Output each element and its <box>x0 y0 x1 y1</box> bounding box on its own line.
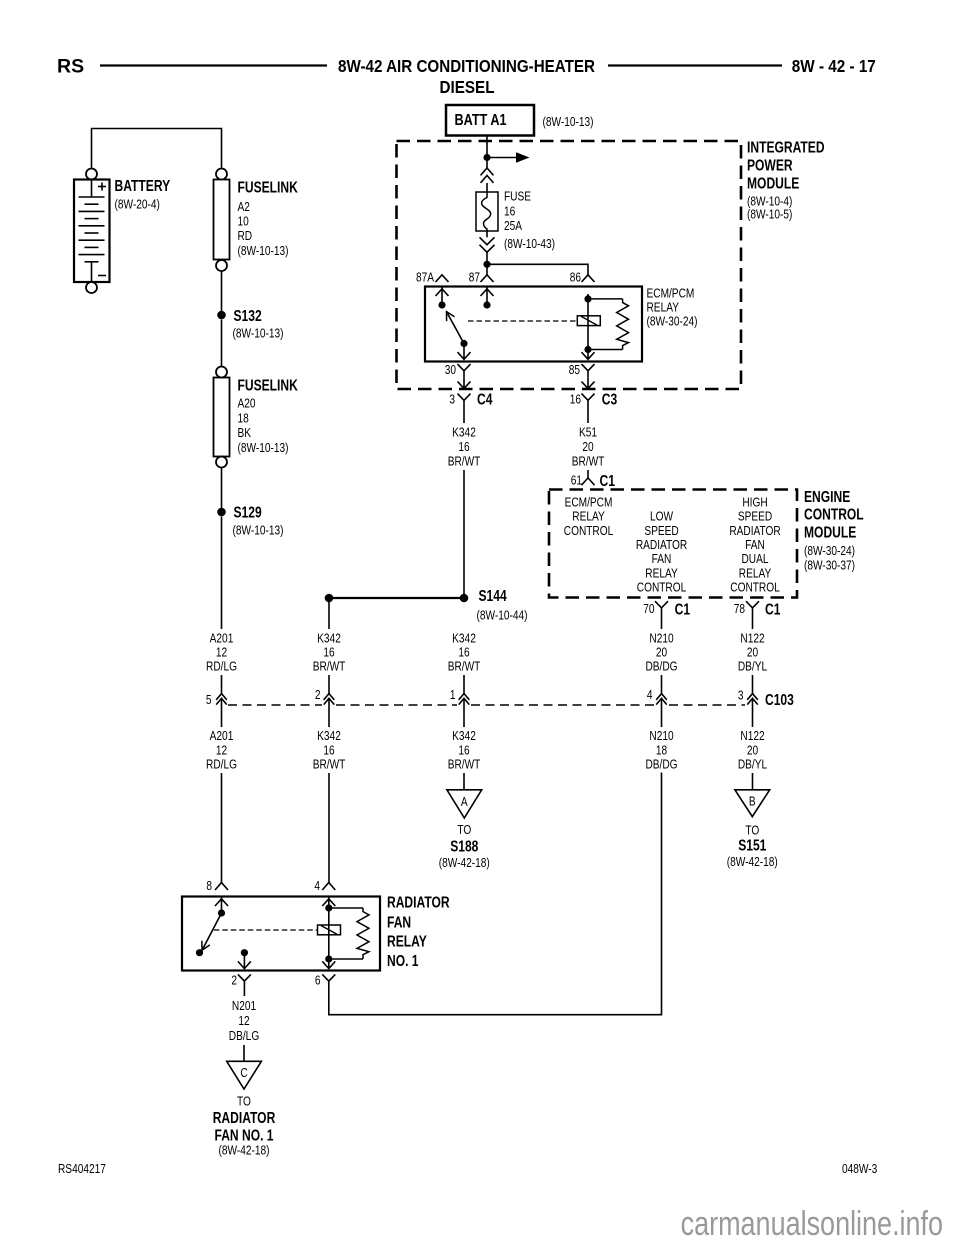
svg-text:MODULE: MODULE <box>804 523 856 541</box>
label FUSE 16 25A <box>504 190 531 204</box>
wire N201 from relay pin 2 <box>243 988 245 996</box>
svg-text:INTEGRATED: INTEGRATED <box>747 138 825 156</box>
svg-text:SPEED: SPEED <box>644 524 678 538</box>
svg-text:SPEED: SPEED <box>738 510 772 524</box>
relay pin 4 connector <box>314 879 320 893</box>
svg-text:RADIATOR: RADIATOR <box>729 524 780 538</box>
fuselink A20 body <box>214 378 230 457</box>
connector C1 pin 70 <box>643 602 655 616</box>
svg-text:S144: S144 <box>479 587 507 605</box>
svg-text:16: 16 <box>323 743 334 757</box>
svg-text:CONTROL: CONTROL <box>637 580 687 594</box>
svg-text:S188: S188 <box>450 837 478 855</box>
svg-text:87: 87 <box>469 270 480 284</box>
svg-text:16: 16 <box>458 440 469 454</box>
wire label N210 20 DB/DG upper <box>649 631 674 645</box>
terminal box BATT A1 <box>446 105 534 136</box>
svg-text:A: A <box>461 795 468 809</box>
svg-text:BR/WT: BR/WT <box>448 454 481 468</box>
wire K51 to ECM pin 61 <box>587 470 589 478</box>
svg-text:25A: 25A <box>504 219 522 233</box>
connector C103 pin 5 <box>221 675 223 694</box>
off-page connector A <box>447 790 482 818</box>
label FUSELINK A2 10 RD <box>238 178 298 196</box>
relay coil <box>577 316 600 326</box>
ECM function ECM/PCM RELAY CONTROL <box>565 495 613 509</box>
svg-text:(8W-10-13): (8W-10-13) <box>233 327 284 341</box>
svg-text:N122: N122 <box>740 631 764 645</box>
svg-text:CONTROL: CONTROL <box>564 524 614 538</box>
relay2 coil feed pin 4 <box>328 897 330 960</box>
svg-text:6: 6 <box>315 974 321 988</box>
connector C103 pin 3 <box>752 675 754 694</box>
wire S129 down (circuit A201) <box>221 517 223 630</box>
relay2 coil <box>318 925 341 935</box>
svg-text:2: 2 <box>231 974 237 988</box>
svg-text:20: 20 <box>656 645 668 659</box>
svg-text:K342: K342 <box>452 425 476 439</box>
connector C1 pin 78 <box>734 602 745 616</box>
engine control module dashed box <box>549 490 797 598</box>
svg-text:DIESEL: DIESEL <box>440 77 495 97</box>
svg-text:5: 5 <box>206 693 212 707</box>
svg-text:C1: C1 <box>675 600 691 618</box>
svg-text:12: 12 <box>216 645 227 659</box>
wire K342 from C4 <box>463 407 465 423</box>
svg-text:TO: TO <box>457 823 471 837</box>
pin 86 <box>570 270 581 284</box>
svg-text:16: 16 <box>458 743 469 757</box>
wire N122 to triangle B <box>752 773 754 790</box>
relay pin 30 leg <box>463 344 465 360</box>
label FUSELINK A20 18 BK <box>238 376 298 394</box>
wire label N201 12 DB/LG <box>232 999 256 1013</box>
svg-text:ECM/PCM: ECM/PCM <box>565 495 613 509</box>
svg-text:(8W-10-13): (8W-10-13) <box>238 244 289 258</box>
svg-text:C3: C3 <box>602 390 618 408</box>
wire branch to pin 86 <box>487 264 588 275</box>
svg-text:(8W-30-37): (8W-30-37) <box>804 558 855 572</box>
svg-text:8: 8 <box>206 879 212 893</box>
wire label K342 16 BR/WT upper <box>452 425 476 439</box>
svg-text:(8W-10-13): (8W-10-13) <box>238 441 289 455</box>
svg-text:85: 85 <box>569 363 580 377</box>
wire pin30 to IPM edge <box>463 378 465 389</box>
svg-text:RELAY: RELAY <box>739 566 772 580</box>
svg-text:RELAY: RELAY <box>387 932 427 950</box>
wire label K342 16 BR/WT branch lower <box>317 729 341 743</box>
svg-text:K342: K342 <box>317 631 341 645</box>
relay2 pin 2 connector <box>231 974 237 988</box>
radiator fan relay no.1 box <box>182 897 380 971</box>
splice S144 branch node <box>325 594 334 603</box>
svg-text:16: 16 <box>504 204 515 218</box>
connector C4 pin 3 <box>449 392 455 406</box>
svg-text:A201: A201 <box>210 631 234 645</box>
wire label K342 16 BR/WT main upper <box>452 631 476 645</box>
header rule right <box>608 64 782 66</box>
svg-text:CONTROL: CONTROL <box>730 580 780 594</box>
fuselink A2 body <box>214 180 230 260</box>
svg-text:61: 61 <box>571 473 582 487</box>
svg-text:8W - 42 - 17: 8W - 42 - 17 <box>792 57 876 77</box>
fuselink A2 terminal bottom <box>216 260 227 271</box>
wire pin85 to IPM edge <box>587 378 589 389</box>
relay2 switch arm <box>202 913 222 950</box>
svg-text:(8W-42-18): (8W-42-18) <box>727 855 778 869</box>
svg-text:4: 4 <box>314 879 320 893</box>
relay coil feed 86 <box>587 294 589 350</box>
svg-text:10: 10 <box>238 214 250 228</box>
svg-text:BR/WT: BR/WT <box>313 757 346 771</box>
svg-text:HIGH: HIGH <box>742 495 767 509</box>
svg-text:C1: C1 <box>600 472 616 490</box>
relay contact 87 leg <box>486 287 488 306</box>
svg-text:FAN: FAN <box>745 538 765 552</box>
svg-text:DB/YL: DB/YL <box>738 757 768 771</box>
svg-text:(8W-10-13): (8W-10-13) <box>543 115 594 129</box>
label ECM/PCM RELAY <box>647 286 695 300</box>
svg-text:RS404217: RS404217 <box>58 1162 106 1176</box>
svg-text:20: 20 <box>747 743 759 757</box>
svg-text:BK: BK <box>238 426 252 440</box>
watermark carmanualsonline.info <box>681 1205 943 1242</box>
svg-text:DB/DG: DB/DG <box>645 757 677 771</box>
ECM/PCM relay box <box>425 287 642 362</box>
header rule left <box>100 64 327 66</box>
connector C3 pin 16 <box>570 392 581 406</box>
svg-text:FUSELINK: FUSELINK <box>238 178 298 196</box>
wire N122 from C1-78 <box>752 615 754 629</box>
wire label N122 20 DB/YL lower <box>740 729 764 743</box>
connector C103 pin 4 <box>661 675 663 694</box>
svg-text:16: 16 <box>323 645 334 659</box>
wire A201 to relay pin 8 <box>221 773 223 883</box>
svg-text:MODULE: MODULE <box>747 174 799 192</box>
svg-text:FAN: FAN <box>387 913 411 931</box>
ECM function HIGH SPEED RADIATOR FAN DUAL RELAY CONTROL <box>742 495 767 509</box>
svg-text:B: B <box>749 794 756 808</box>
svg-text:ECM/PCM: ECM/PCM <box>647 286 695 300</box>
connector C103 dashed line <box>228 704 322 706</box>
svg-text:RS: RS <box>57 56 84 78</box>
relay2 contact pin8 leg <box>221 897 223 914</box>
svg-text:FUSE: FUSE <box>504 190 531 204</box>
connector C103 pin 2 <box>328 675 330 694</box>
junction node above relay <box>483 261 490 268</box>
wire label K342 16 BR/WT main lower <box>452 729 476 743</box>
svg-text:DUAL: DUAL <box>741 552 768 566</box>
label BATTERY <box>115 177 171 195</box>
wire label K342 16 BR/WT branch upper <box>317 631 341 645</box>
svg-text:RELAY: RELAY <box>647 301 680 315</box>
battery terminal top <box>86 169 97 180</box>
fuselink A20 terminal top <box>216 367 227 378</box>
svg-text:78: 78 <box>734 602 745 616</box>
svg-text:FAN NO. 1: FAN NO. 1 <box>214 1126 273 1144</box>
wire fuselink A2 to S132 <box>221 271 223 311</box>
header page ref 8W-42-17 <box>792 57 876 77</box>
junction node below BATT A1 <box>483 154 490 161</box>
battery terminal bottom <box>86 282 97 293</box>
label RADIATOR FAN RELAY NO. 1 <box>387 893 450 911</box>
pin 85 connector <box>569 363 580 377</box>
label INTEGRATED POWER MODULE <box>747 138 825 156</box>
fuselink A20 terminal bottom <box>216 457 227 468</box>
label TO S188 <box>457 823 471 837</box>
relay2 resistor <box>331 908 369 959</box>
wire fuselink A20 to S129 <box>221 468 223 509</box>
svg-text:TO: TO <box>237 1094 251 1108</box>
svg-text:K342: K342 <box>452 631 476 645</box>
svg-text:S151: S151 <box>738 836 766 854</box>
wire K342 branch to relay pin 4 <box>328 773 330 883</box>
wire K342 to triangle A <box>463 773 465 790</box>
svg-text:3: 3 <box>738 688 744 702</box>
label TO RADIATOR FAN NO. 1 <box>237 1094 251 1108</box>
svg-text:18: 18 <box>656 743 667 757</box>
svg-text:NO. 1: NO. 1 <box>387 952 419 970</box>
pin 87 <box>469 270 480 284</box>
svg-text:2: 2 <box>315 688 321 702</box>
wire below fuse <box>486 231 488 237</box>
svg-text:S132: S132 <box>234 307 262 325</box>
svg-text:BR/WT: BR/WT <box>313 659 346 673</box>
relay2 rest contact node <box>196 949 203 956</box>
header title line 2 DIESEL <box>440 77 495 97</box>
pin 30 connector <box>445 363 457 377</box>
wire label N210 18 DB/DG lower <box>649 729 674 743</box>
svg-text:DB/LG: DB/LG <box>229 1029 259 1043</box>
wire K51 from C3 <box>587 407 589 423</box>
svg-text:(8W-10-43): (8W-10-43) <box>504 237 555 251</box>
svg-text:(8W-20-4): (8W-20-4) <box>115 198 160 212</box>
svg-text:POWER: POWER <box>747 156 793 174</box>
svg-text:(8W-10-44): (8W-10-44) <box>477 608 528 622</box>
svg-text:DB/DG: DB/DG <box>645 659 677 673</box>
off-page connector C <box>227 1061 262 1089</box>
header label RS <box>57 56 84 78</box>
svg-text:(8W-10-13): (8W-10-13) <box>233 523 284 537</box>
svg-text:RELAY: RELAY <box>645 566 678 580</box>
svg-text:3: 3 <box>449 392 455 406</box>
svg-text:ENGINE: ENGINE <box>804 487 850 505</box>
svg-text:RADIATOR: RADIATOR <box>636 538 687 552</box>
svg-text:A201: A201 <box>210 729 234 743</box>
relay2 pin 2 contact <box>241 949 248 956</box>
splice S144 tie bar <box>329 597 464 599</box>
relay2 actuation dashed link <box>214 929 317 931</box>
svg-text:16: 16 <box>458 645 469 659</box>
label ENGINE CONTROL MODULE <box>804 487 850 505</box>
wire N201 to triangle C <box>243 1045 245 1061</box>
relay pin 85 leg <box>587 350 589 360</box>
svg-text:S129: S129 <box>234 503 262 521</box>
wire BATT A1 down to fuse <box>486 136 488 169</box>
wire S132 to fuselink A20 <box>221 320 223 367</box>
svg-text:C4: C4 <box>477 390 493 408</box>
svg-text:C1: C1 <box>765 600 781 618</box>
svg-text:BR/WT: BR/WT <box>572 454 605 468</box>
relay pin 8 connector <box>206 879 212 893</box>
svg-text:LOW: LOW <box>650 510 673 524</box>
footer drawing number 048W-3 <box>842 1162 877 1176</box>
wire N210 from C1-70 <box>661 615 663 629</box>
fuse F 16 25A <box>476 192 498 231</box>
svg-text:RD: RD <box>238 229 253 243</box>
footer sheet number RS404217 <box>58 1162 106 1176</box>
wire label N122 20 DB/YL upper <box>740 631 764 645</box>
integrated power module dashed box <box>397 141 742 389</box>
svg-text:BATTERY: BATTERY <box>115 177 171 195</box>
svg-text:30: 30 <box>445 363 457 377</box>
svg-text:12: 12 <box>216 743 227 757</box>
svg-text:N122: N122 <box>740 729 764 743</box>
svg-text:BATT A1: BATT A1 <box>455 110 507 128</box>
ECM function LOW SPEED RADIATOR FAN RELAY CONTROL <box>650 510 673 524</box>
svg-text:16: 16 <box>570 392 581 406</box>
svg-text:BR/WT: BR/WT <box>448 757 481 771</box>
inline connector chevrons above fuse <box>481 168 494 175</box>
svg-text:RADIATOR: RADIATOR <box>213 1109 276 1127</box>
svg-text:CONTROL: CONTROL <box>804 505 864 523</box>
svg-text:1: 1 <box>450 688 456 702</box>
relay switch arm <box>447 312 465 344</box>
connector C103 pin 1 <box>463 675 465 694</box>
svg-text:RD/LG: RD/LG <box>206 757 237 771</box>
connector C1 pin 61 <box>571 473 582 487</box>
svg-text:20: 20 <box>747 645 759 659</box>
pin 87A <box>416 270 434 284</box>
relay2 pin 6 leg <box>328 959 330 969</box>
wire battery top to fuselink A2 <box>92 129 222 169</box>
wire label A201 12 RD/LG upper <box>210 631 234 645</box>
label TO S151 <box>745 823 759 837</box>
svg-text:87A: 87A <box>416 270 434 284</box>
relay resistor <box>591 299 629 350</box>
fuselink A2 terminal top <box>216 169 227 180</box>
svg-text:12: 12 <box>238 1014 249 1028</box>
svg-text:FUSELINK: FUSELINK <box>238 376 298 394</box>
svg-text:K342: K342 <box>452 729 476 743</box>
svg-text:RD/LG: RD/LG <box>206 659 237 673</box>
svg-text:RADIATOR: RADIATOR <box>387 893 450 911</box>
splice S132 <box>217 311 226 320</box>
svg-text:N201: N201 <box>232 999 256 1013</box>
wire K342 to splice S144 <box>463 470 465 598</box>
svg-text:(8W-30-24): (8W-30-24) <box>647 314 698 328</box>
splice S144 <box>460 594 469 603</box>
off-page connector B <box>735 790 770 817</box>
wire S144 branch down <box>328 602 330 629</box>
svg-text:K342: K342 <box>317 729 341 743</box>
branch arrow to other circuits <box>487 152 530 162</box>
svg-text:4: 4 <box>647 688 653 702</box>
svg-text:70: 70 <box>643 602 655 616</box>
svg-text:K51: K51 <box>579 425 597 439</box>
svg-text:C: C <box>240 1066 247 1080</box>
svg-text:carmanualsonline.info: carmanualsonline.info <box>681 1205 943 1242</box>
inline connector chevrons below fuse <box>480 237 495 244</box>
svg-text:(8W-30-24): (8W-30-24) <box>804 544 855 558</box>
svg-text:A20: A20 <box>238 397 256 411</box>
relay actuation dashed link <box>468 320 576 322</box>
svg-text:(8W-42-18): (8W-42-18) <box>439 856 490 870</box>
svg-text:(8W-42-18): (8W-42-18) <box>218 1143 269 1157</box>
svg-text:18: 18 <box>238 411 249 425</box>
relay2 pin 6 connector <box>315 974 321 988</box>
relay contact 87A leg <box>441 287 443 306</box>
svg-text:(8W-10-5): (8W-10-5) <box>747 207 792 221</box>
header title line 1 <box>338 57 595 77</box>
wire label K51 20 BR/WT <box>579 425 597 439</box>
svg-text:20: 20 <box>582 440 594 454</box>
svg-text:N210: N210 <box>649 631 674 645</box>
svg-text:N210: N210 <box>649 729 674 743</box>
svg-text:A2: A2 <box>238 200 250 214</box>
wire into fuse <box>486 183 488 192</box>
svg-text:048W-3: 048W-3 <box>842 1162 877 1176</box>
svg-text:86: 86 <box>570 270 581 284</box>
svg-text:BR/WT: BR/WT <box>448 659 481 673</box>
svg-text:DB/YL: DB/YL <box>738 659 768 673</box>
svg-text:FAN: FAN <box>652 552 672 566</box>
wire label A201 12 RD/LG lower <box>210 729 234 743</box>
wire N210 relay pin 6 to C103 pin 4 route <box>329 773 662 1015</box>
svg-text:8W-42 AIR CONDITIONING-HEATER: 8W-42 AIR CONDITIONING-HEATER <box>338 57 595 77</box>
svg-text:RELAY: RELAY <box>572 510 605 524</box>
wire to relay pin 87 <box>486 252 488 275</box>
svg-text:C103: C103 <box>765 691 794 709</box>
battery symbol <box>74 180 110 283</box>
splice S129 <box>217 508 226 517</box>
